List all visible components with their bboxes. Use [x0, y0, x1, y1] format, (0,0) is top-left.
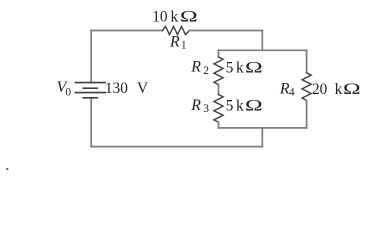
wire R2 branch top stub: [218, 50, 220, 57]
wire top left segment: [91, 30, 162, 32]
svg-text:3: 3: [203, 103, 209, 115]
wire left vertical top (battery to top wire): [90, 31, 92, 83]
resistor R2: [214, 57, 223, 85]
svg-text:R: R: [169, 33, 180, 50]
svg-text:k: k: [236, 59, 244, 76]
wire right vertical upper: [261, 31, 263, 51]
svg-text:k: k: [171, 9, 179, 26]
wire top right segment: [189, 30, 262, 32]
wire bottom: [91, 146, 262, 148]
svg-text:k: k: [335, 81, 343, 98]
svg-text:1: 1: [181, 40, 187, 52]
wire R4 branch top stub: [306, 50, 308, 73]
svg-text:5: 5: [226, 59, 234, 76]
svg-text:Ω: Ω: [343, 81, 361, 98]
svg-text:k: k: [236, 98, 244, 115]
battery V0 plate long lower: [75, 92, 106, 94]
svg-text:10: 10: [152, 9, 168, 26]
svg-text:5: 5: [226, 98, 234, 115]
svg-text:Ω: Ω: [245, 59, 263, 76]
battery V0 plate short bottom: [83, 97, 99, 99]
svg-text:Ω: Ω: [180, 8, 198, 25]
svg-text:R: R: [190, 97, 201, 114]
battery V0 plate short upper: [83, 87, 99, 89]
wire R4 branch bottom stub: [306, 100, 308, 128]
svg-text:V: V: [137, 80, 148, 97]
wire between R2 and R3: [218, 85, 220, 95]
wire inner bottom rail: [219, 127, 307, 129]
resistor R3: [214, 95, 223, 123]
svg-text:R: R: [190, 59, 201, 76]
svg-text:4: 4: [289, 87, 295, 99]
svg-text:0: 0: [65, 86, 71, 98]
wire right vertical lower: [261, 128, 263, 147]
svg-text:Ω: Ω: [245, 97, 263, 114]
resistor R1: [163, 26, 190, 34]
svg-text:2: 2: [203, 65, 209, 77]
wire inner top rail: [219, 49, 307, 51]
stray dot artifact: [6, 168, 8, 170]
wire R3 branch bottom stub: [218, 122, 220, 128]
wire left vertical bottom (battery to bottom wire): [90, 98, 92, 147]
svg-text:130: 130: [105, 80, 128, 97]
resistor R4: [302, 73, 311, 101]
svg-text:20: 20: [312, 81, 328, 98]
battery V0 plate long top: [75, 82, 106, 84]
